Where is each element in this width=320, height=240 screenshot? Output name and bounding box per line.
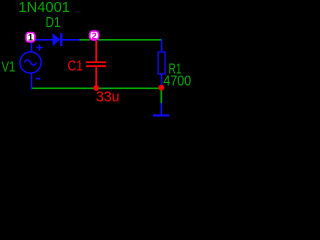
junction dot at C1 bottom — [93, 85, 99, 91]
voltage source V1 — [20, 43, 43, 90]
svg-text:1N4001: 1N4001 — [18, 0, 70, 16]
svg-text:1: 1 — [28, 33, 34, 44]
wire top segment node2-left — [79, 39, 90, 41]
svg-text:V1: V1 — [2, 60, 16, 76]
svg-text:33u: 33u — [96, 90, 120, 106]
capacitor C1 — [86, 41, 106, 89]
junction dot at R1 bottom — [158, 85, 164, 91]
svg-text:4700: 4700 — [163, 74, 191, 90]
wire top segment node2 to right corner — [98, 39, 161, 41]
wire bottom segment — [31, 87, 162, 89]
diode D1 — [36, 33, 80, 46]
node 1 bubble — [26, 33, 35, 44]
svg-text:2: 2 — [91, 31, 96, 42]
svg-text:D1: D1 — [46, 15, 61, 31]
wire ground stub — [160, 88, 162, 104]
ground — [153, 103, 169, 115]
svg-text:C1: C1 — [68, 59, 84, 75]
node 2 bubble — [90, 31, 99, 42]
resistor R1 — [158, 39, 165, 87]
